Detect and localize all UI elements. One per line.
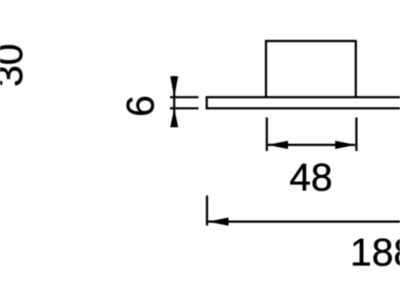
dimension 188: arrowhead (points left) xyxy=(208,218,229,226)
dimension 48: left extension line xyxy=(266,118,268,152)
dimension 188: dimension line (cropped at right) xyxy=(208,221,400,223)
dimension 6: dimension line xyxy=(173,76,175,127)
block (on top of plate) xyxy=(266,41,356,97)
dimension 48: right extension line xyxy=(355,118,357,152)
svg-text:6: 6 xyxy=(119,95,162,117)
dimension 48: left arrowhead (points left) xyxy=(268,141,289,149)
dimension 48: right arrowhead (points right) xyxy=(335,141,356,149)
dimension 6: extension line top xyxy=(170,96,199,98)
dimension 6: upper arrowhead (points down) xyxy=(170,76,178,97)
dimension 188: extension line xyxy=(206,196,208,226)
svg-text:48: 48 xyxy=(289,156,332,199)
dimension 6: extension line bottom xyxy=(170,107,199,109)
plate (base bar, cropped at right) xyxy=(207,97,400,108)
dimension 6: lower arrowhead (points up) xyxy=(170,108,178,127)
svg-text:30: 30 xyxy=(0,44,31,87)
svg-text:188: 188 xyxy=(350,232,400,275)
dimension 48: dimension line xyxy=(268,144,355,146)
